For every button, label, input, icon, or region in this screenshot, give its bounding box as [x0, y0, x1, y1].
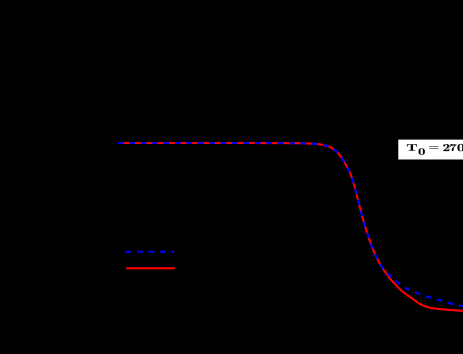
annotation glyph 2	[443, 144, 450, 151]
annotation glyph 7	[450, 144, 457, 151]
annotation glyph subscript 0	[419, 148, 425, 155]
annotation glyph 0 (clipped by right edge)	[457, 144, 463, 151]
annotation glyph T	[407, 144, 417, 151]
curve: red solid R(T) transition	[118, 143, 463, 311]
legend: blue dashed sample line	[126, 251, 175, 253]
annotation glyph equals	[429, 146, 439, 149]
legend: red solid sample line	[126, 267, 174, 269]
curve: blue dashed fit (overlaps red on plateau, diverges in tail)	[118, 143, 463, 306]
annotation box background	[398, 140, 463, 160]
